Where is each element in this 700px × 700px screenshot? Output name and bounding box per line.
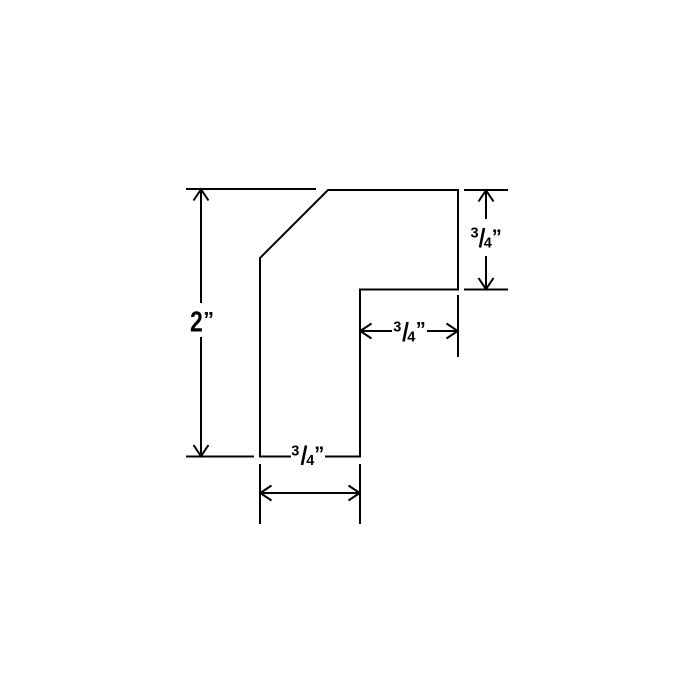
label 2in [190, 306, 214, 338]
dimension line 3/4in bottom [260, 492, 360, 494]
extension line top-right (3/4in vertical dim, top) [464, 189, 508, 191]
extension line top-left (2in dim, top) [186, 188, 316, 190]
svg-text:4: 4 [407, 329, 415, 345]
label 3/4in bottom [291, 443, 324, 469]
dimension line 2in (upper segment) [200, 189, 202, 303]
svg-text:3: 3 [291, 443, 299, 459]
arrowhead 3/4in bottom left [260, 486, 271, 501]
svg-text:3: 3 [393, 320, 401, 336]
extension line right (3/4in horizontal middle dim) [457, 295, 459, 357]
arrowhead 3/4in bottom right [349, 486, 360, 501]
svg-text:3: 3 [471, 226, 479, 242]
arrowhead 3/4in vertical down [479, 278, 494, 289]
dimension line 3/4in middle (right segment) [427, 330, 458, 332]
profile outline (molding cross-section) [260, 190, 458, 457]
dimension line 3/4in vertical (upper segment) [485, 190, 487, 219]
svg-text:4: 4 [306, 453, 314, 469]
svg-text:”: ” [416, 319, 426, 341]
extension line bottom dim right [359, 464, 361, 524]
arrowhead 3/4in vertical up [479, 190, 494, 201]
label 3/4in vertical (top right) [471, 226, 502, 252]
svg-text:2: 2 [190, 306, 203, 338]
svg-text:4: 4 [484, 235, 492, 251]
svg-text:”: ” [314, 443, 324, 465]
svg-text:”: ” [203, 307, 214, 331]
label 3/4in middle [393, 319, 426, 345]
arrowhead 3/4in middle left [360, 324, 371, 339]
extension line bottom-left (2in dim, bottom) [186, 456, 254, 458]
arrowhead 2in up [194, 189, 209, 200]
dimension line 3/4in vertical (lower segment) [485, 256, 487, 290]
dimension line 3/4in middle (left segment) [360, 330, 392, 332]
extension line bottom dim left [259, 464, 261, 524]
extension line mid-right (3/4in vertical dim, bottom) [464, 289, 508, 291]
svg-text:”: ” [492, 226, 502, 248]
arrowhead 3/4in middle right [447, 324, 458, 339]
dimension line 2in (lower segment) [200, 337, 202, 457]
arrowhead 2in down [194, 445, 209, 456]
white gap behind bottom 3/4 label [291, 443, 325, 463]
